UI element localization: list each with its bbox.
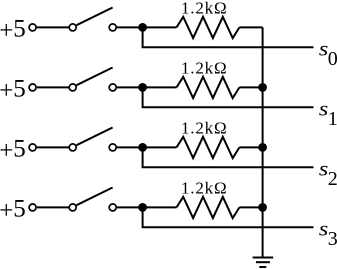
switch SW4 lever arm (77, 188, 113, 206)
node bus junction row 3 (258, 143, 267, 152)
wire (SW3 terminal to pivot) (37, 146, 69, 148)
resistor R4 (177, 197, 240, 218)
switch SW2 right contact circle (109, 84, 116, 91)
switch SW3 pivot circle (69, 144, 76, 151)
wire (s2 output line) (142, 166, 314, 168)
resistor R3 (177, 137, 240, 158)
wire (ground bus vertical) (262, 27, 264, 257)
node junction row 1 (138, 23, 147, 32)
svg-text:+5: +5 (0, 16, 26, 45)
switch SW1 lever arm (77, 8, 113, 26)
switch SW4 left terminal circle (29, 204, 36, 211)
ground (253, 258, 274, 268)
wire (node down to s0 line) (142, 27, 144, 47)
svg-text:0: 0 (328, 48, 337, 70)
wire (SW4 contact to resistor R4) (117, 206, 177, 208)
switch SW4 right contact circle (109, 204, 116, 211)
wire (s3 output line) (142, 226, 314, 228)
resistor R1 (177, 17, 240, 38)
wire (node down to s1 line) (142, 87, 144, 107)
svg-text:1.2kΩ: 1.2kΩ (181, 119, 227, 138)
wire (s1 output line) (142, 106, 314, 108)
svg-text:1.2kΩ: 1.2kΩ (181, 59, 227, 78)
svg-text:1.2kΩ: 1.2kΩ (181, 0, 227, 18)
switch SW2 left terminal circle (29, 84, 36, 91)
wire (SW1 terminal to pivot) (37, 26, 69, 28)
node bus junction row 2 (258, 83, 267, 92)
wire (node down to s3 line) (142, 207, 144, 227)
wire (R2 to ground bus) (239, 86, 262, 88)
switch SW2 lever arm (77, 68, 113, 86)
switch SW3 lever arm (77, 128, 113, 146)
wire (SW1 contact to resistor R1) (117, 26, 177, 28)
switch SW2 pivot circle (69, 84, 76, 91)
svg-text:2: 2 (328, 168, 337, 190)
node junction row 4 (138, 203, 147, 212)
wire (SW4 terminal to pivot) (37, 206, 69, 208)
wire (R4 to ground bus) (239, 206, 262, 208)
switch SW4 pivot circle (69, 204, 76, 211)
svg-text:+5: +5 (0, 76, 26, 105)
wire (R3 to ground bus) (239, 146, 262, 148)
svg-text:1.2kΩ: 1.2kΩ (181, 179, 227, 198)
node junction row 2 (138, 83, 147, 92)
wire (node down to s2 line) (142, 147, 144, 167)
wire (R1 to ground bus) (239, 26, 262, 28)
switch SW1 left terminal circle (29, 24, 36, 31)
svg-text:+5: +5 (0, 136, 26, 165)
switch SW3 right contact circle (109, 144, 116, 151)
switch SW1 right contact circle (109, 24, 116, 31)
svg-text:+5: +5 (0, 196, 26, 225)
node junction row 3 (138, 143, 147, 152)
resistor R2 (177, 77, 240, 98)
svg-text:3: 3 (328, 228, 337, 250)
wire (SW3 contact to resistor R3) (117, 146, 177, 148)
wire (SW2 contact to resistor R2) (117, 86, 177, 88)
svg-text:1: 1 (328, 108, 337, 130)
wire (s0 output line) (142, 46, 314, 48)
switch SW1 pivot circle (69, 24, 76, 31)
switch SW3 left terminal circle (29, 144, 36, 151)
node bus junction row 4 (258, 203, 267, 212)
wire (SW2 terminal to pivot) (37, 86, 69, 88)
